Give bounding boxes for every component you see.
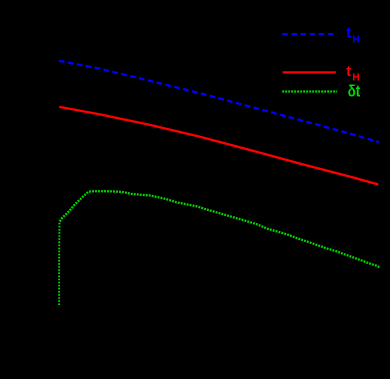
svg-text:δt: δt xyxy=(348,82,361,101)
svg-text:H: H xyxy=(352,35,359,46)
svg-text:t: t xyxy=(346,26,351,42)
svg-text:t: t xyxy=(346,64,351,80)
